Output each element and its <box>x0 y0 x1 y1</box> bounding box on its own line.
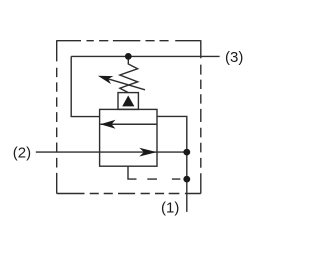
adjustment arrow shaft <box>105 78 146 90</box>
lower arrowhead (right) <box>139 148 157 157</box>
junction dot node A <box>183 149 190 156</box>
cartridge envelope (dashed boundary) <box>57 40 201 193</box>
wire port 1 line <box>186 152 188 212</box>
adjustment arrowhead <box>98 76 114 84</box>
svg-text:(1): (1) <box>161 199 179 216</box>
drain elbow <box>128 166 137 179</box>
wire right link <box>157 116 187 152</box>
drain dashed segments <box>147 178 180 180</box>
spring <box>120 59 138 93</box>
wire port 2 line <box>36 151 187 153</box>
upper arrowhead (left) <box>100 120 115 129</box>
valve body <box>100 109 157 166</box>
pilot triangle <box>122 96 134 107</box>
junction dot node B <box>183 176 190 183</box>
upper flow line in body <box>100 123 157 125</box>
svg-text:(3): (3) <box>225 49 243 66</box>
pilot box <box>118 93 138 110</box>
wire port 3 line <box>71 55 219 57</box>
junction dot node C <box>125 53 132 60</box>
wire pilot loop left <box>71 56 99 116</box>
svg-text:(2): (2) <box>13 144 31 161</box>
